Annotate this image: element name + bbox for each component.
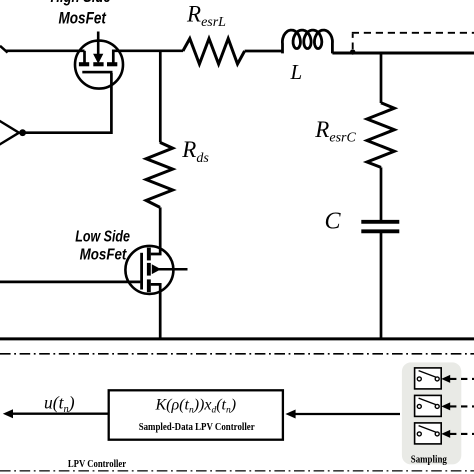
wire gate of high-side mosfet: [24, 73, 111, 133]
transistor Q2 bottom contact pad: [147, 279, 151, 292]
inductor L coil: [282, 30, 332, 53]
arrowhead into controller: [285, 410, 295, 419]
wire drain of low-side mosfet: [151, 207, 161, 254]
svg-text:u(tn): u(tn): [44, 393, 75, 416]
node gate driver output dot: [19, 129, 26, 136]
arrowhead u(t): [3, 409, 13, 418]
sampling group box: [402, 362, 461, 464]
wire high-side source elbow: [83, 51, 86, 63]
transistor Q2 top contact pad: [147, 248, 151, 261]
wire resistor to capacitor: [380, 167, 383, 220]
node switch junction vertical drop: [159, 51, 162, 143]
wire low-side gate: [0, 281, 140, 284]
transistor Q1 left contact pad: [79, 62, 89, 66]
transistor Q2 body arrow: [152, 265, 160, 273]
svg-text:C: C: [325, 208, 342, 234]
controller block K: [109, 390, 283, 439]
transistor Q1 middle contact pad: [93, 62, 103, 66]
wire capacitor branch top: [380, 53, 383, 103]
wire capacitor to bottom rail: [380, 233, 383, 340]
op-amp U1 inverter gate driver: [0, 120, 19, 146]
wire between resistor and inductor: [245, 50, 283, 53]
transistor Q2 middle contact pad: [147, 263, 151, 276]
svg-text:High Side: High Side: [51, 0, 111, 6]
switch S3 box: [415, 423, 442, 444]
svg-text:Low Side: Low Side: [75, 229, 130, 246]
capacitor C bottom plate: [361, 229, 399, 233]
switch S2 contacts and lever: [417, 404, 421, 408]
transistor Q1 gate bar: [82, 71, 112, 74]
switch S1 contacts and lever: [417, 377, 421, 381]
svg-text:Sampled-Data LPV Controller: Sampled-Data LPV Controller: [139, 422, 255, 433]
transistor Q1 drain lead with down arrow: [97, 32, 100, 56]
wire left input tick: [0, 46, 8, 53]
switch S3 contacts and lever: [417, 432, 421, 436]
wire u(t) output arrow: [11, 413, 109, 415]
svg-text:L: L: [290, 60, 303, 84]
wire top rail left segment: [6, 49, 85, 52]
wire dashed sampling feedback top: [352, 34, 354, 49]
wire bottom rail: [0, 337, 474, 340]
wire dashed input to S3: [450, 433, 474, 435]
wire top rail right of inductor: [332, 52, 474, 55]
wire dashed input to S1: [450, 378, 474, 380]
arrowhead into S2: [441, 402, 450, 410]
transistor Q2 gate bar: [140, 253, 143, 290]
transistor Q2 low side mosfet body circle: [125, 246, 173, 294]
svg-text:LPV Controller: LPV Controller: [68, 458, 126, 470]
wire low-side source to bottom rail: [151, 284, 161, 340]
wire dash-dot divider: [0, 353, 474, 355]
wire sampling to controller arrow: [290, 413, 400, 415]
svg-text:MosFet: MosFet: [80, 247, 127, 264]
arrowhead into S3: [441, 430, 450, 438]
switch S1 box: [415, 368, 442, 389]
svg-text:MosFet: MosFet: [58, 10, 107, 28]
resistor R_ds zigzag: [146, 142, 173, 207]
wire dashed input to S2: [450, 405, 474, 407]
transistor Q1 high side mosfet body circle: [75, 41, 123, 89]
node sampling tap dot: [350, 49, 355, 54]
wire high-side drain elbow to rail: [113, 51, 183, 63]
transistor Q1 right contact pad: [107, 62, 117, 66]
switch S2 box: [415, 395, 442, 416]
svg-text:Sampling: Sampling: [411, 453, 447, 465]
svg-text:K(ρ(tn))xd(tn): K(ρ(tn))xd(tn): [155, 396, 237, 415]
transistor Q2 body stub: [157, 268, 188, 271]
arrowhead into S1: [441, 375, 450, 383]
resistor R_esrC zigzag: [367, 103, 394, 168]
wire dash-dot bottom border: [0, 470, 474, 472]
capacitor C top plate: [361, 220, 399, 224]
resistor R_esrL zigzag: [183, 39, 245, 64]
